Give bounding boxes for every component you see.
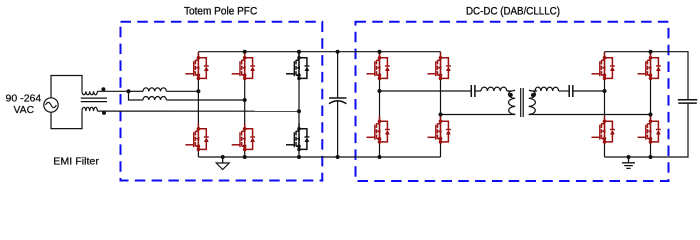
node legA bottom [378,155,382,159]
wire PFC leg2 [244,52,246,157]
transistor Q3 PFC leg2 high [232,53,255,81]
capacitor Cr1 [471,85,475,97]
node leg2 top [243,50,247,54]
transistor Q5 PFC leg3 high [286,53,309,81]
transistor QA1 [367,53,390,81]
transistor Q1 PFC leg1 high [185,53,208,81]
wire DCDC legD [650,52,652,157]
node leg2 mid [243,98,247,102]
node leg3 bottom [297,155,301,159]
wire Cr2 to legC mid [573,90,605,92]
inductor Lr1 [481,87,507,91]
wire choke to node L1 [97,90,128,92]
wire tank bottom left [441,114,516,116]
phase dot secondary [531,93,535,97]
phase dot choke top [101,87,105,91]
capacitor C bus [337,52,339,98]
transistor QC1 [592,53,615,81]
transformer secondary [529,90,537,114]
node legA top [378,50,382,54]
transistor Q4 PFC leg2 low [232,124,255,152]
ground DCDC [627,155,631,159]
wire AC bottom lead [51,111,82,129]
ground PFC [221,155,225,159]
transistor Q6 PFC leg3 low [286,124,309,152]
node legD top [649,50,653,54]
wire AC top lead [51,76,82,98]
wire right bottom rail [605,103,689,157]
svg-text:90 -264: 90 -264 [6,94,42,105]
node leg2 bottom [243,155,247,159]
wire L2 to leg2 mid [166,99,244,101]
transistor QD2 [638,116,661,144]
EMI choke top winding [82,91,97,95]
dashed box Totem Pole PFC [121,22,323,181]
wire tank bottom right [529,114,651,116]
EMI choke core [81,98,107,102]
phase dot primary [509,93,513,97]
wire to inductor L1 [129,90,144,92]
node leg3 top [297,50,301,54]
inductor Lr2 [535,87,559,91]
wire secondary to Lr2 [535,90,538,92]
node split [127,89,131,93]
transistor QA2 [367,116,390,144]
capacitor C out [678,99,698,101]
wire DCDC legA [379,52,381,157]
node legC mid [603,89,607,93]
capacitor Cr2 [569,85,573,97]
node leg3 mid [297,109,301,113]
node legD bottom [649,155,653,159]
wire Lr1 to transformer [507,90,509,92]
wire DCDC legC [604,52,606,157]
transistor Q2 PFC leg1 low [185,124,208,152]
wire L1 to leg1 mid [166,90,198,92]
svg-text:EMI Filter: EMI Filter [53,157,99,168]
transformer primary [508,90,516,114]
wire Lr2 to Cr2 [559,90,570,92]
EMI choke bottom winding [82,107,97,111]
wire AC line to leg3 mid [97,110,299,112]
node legB mid [439,113,443,117]
phase dot choke bottom [102,111,106,115]
wire PFC bottom rail [198,156,440,158]
wire DCDC legB [440,52,442,157]
wire split down [129,91,144,100]
wire PFC leg3 [298,52,300,157]
dashed box DC-DC [356,22,669,181]
transformer core [521,88,524,117]
AC source V1 [44,98,58,112]
wire tank top [380,90,472,92]
node legA mid [378,89,382,93]
node leg1 mid [196,89,200,93]
node bus cap top [336,50,340,54]
node legD mid [649,113,653,117]
node bus cap bottom [336,155,340,159]
svg-text:DC-DC (DAB/CLLLC): DC-DC (DAB/CLLLC) [466,5,560,17]
transistor QB1 [428,53,451,81]
svg-text:VAC: VAC [14,105,35,116]
wire PFC leg1 [197,52,199,157]
transistor QC2 [592,116,615,144]
inductor L2 [143,97,166,100]
wire PFC top rail [198,51,440,53]
transistor QB2 [428,116,451,144]
wire cap to Lr1 [475,90,481,92]
transistor QD1 [638,53,661,81]
svg-text:Totem Pole PFC: Totem Pole PFC [184,5,257,17]
wire right top rail [605,52,689,100]
inductor L1 [143,88,166,91]
